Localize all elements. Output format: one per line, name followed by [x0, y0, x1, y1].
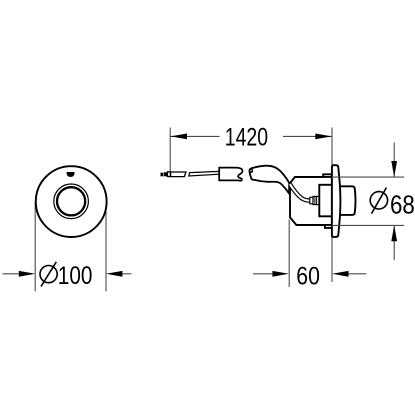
ext line 60 left [288, 220, 290, 288]
hose break curl ellipse [249, 168, 253, 172]
dim O100 left tail [3, 273, 20, 275]
arrowhead 60 left [272, 271, 289, 277]
arrowhead O68 top (pointing down) [391, 161, 397, 177]
main valve body [290, 174, 332, 228]
svg-text:100: 100 [58, 262, 93, 290]
body bottom edge thick [296, 224, 332, 226]
wall plate (escutcheon side view) [332, 165, 341, 237]
cartridge housing [319, 185, 332, 217]
cable end collar [167, 172, 170, 177]
arrowhead 1420 right [315, 134, 332, 140]
front view: top logo mark [67, 172, 75, 177]
dim 60 left tail [253, 273, 272, 275]
thin dimension/extension lines [3, 128, 395, 292]
cable connector sleeve with break [219, 168, 242, 181]
ext line 1420 left [169, 128, 171, 172]
O68 top extension line over plate [332, 176, 404, 178]
O68 top arrow shaft [393, 143, 395, 177]
thin inner tube [290, 184, 310, 201]
body top edge thick [295, 176, 332, 178]
diameter symbol of O100 [40, 262, 57, 287]
arrowhead 1420 left [171, 134, 188, 140]
ext line right of front-view circle [105, 202, 107, 292]
arrowhead O100 left [19, 271, 35, 277]
front view: ring (button bezel) [54, 184, 89, 219]
arrowhead 60 right [332, 271, 349, 277]
O68 bottom arrow shaft [393, 226, 395, 260]
ribbed hose fitting [313, 196, 319, 204]
front view: inner button circle [57, 187, 85, 215]
svg-text:1420: 1420 [225, 123, 268, 151]
dim 60 right tail [348, 273, 366, 275]
cable end tapered piece [171, 172, 186, 177]
front view: outer circle of button plate [36, 166, 107, 237]
svg-text:60: 60 [296, 262, 320, 290]
arrowhead O68 bottom (pointing up) [391, 225, 397, 241]
dim 1420 line left segment [170, 135, 219, 137]
O68 bottom extension line over plate [332, 224, 404, 226]
hose tube with break curl [249, 166, 289, 194]
thin rod piece [189, 171, 219, 176]
center/ext line at wall plate [331, 128, 333, 283]
hose fitting collar [310, 197, 313, 204]
cable end ribbed tip [161, 172, 168, 176]
ext line left of front-view circle [34, 202, 36, 292]
dim O100 right tail [122, 273, 132, 275]
arrowhead O100 right [106, 271, 122, 277]
dim 1420 line right segment [283, 135, 332, 137]
svg-text:68: 68 [390, 191, 415, 219]
push button side view [341, 186, 356, 215]
diameter symbol of O68 [370, 188, 387, 214]
